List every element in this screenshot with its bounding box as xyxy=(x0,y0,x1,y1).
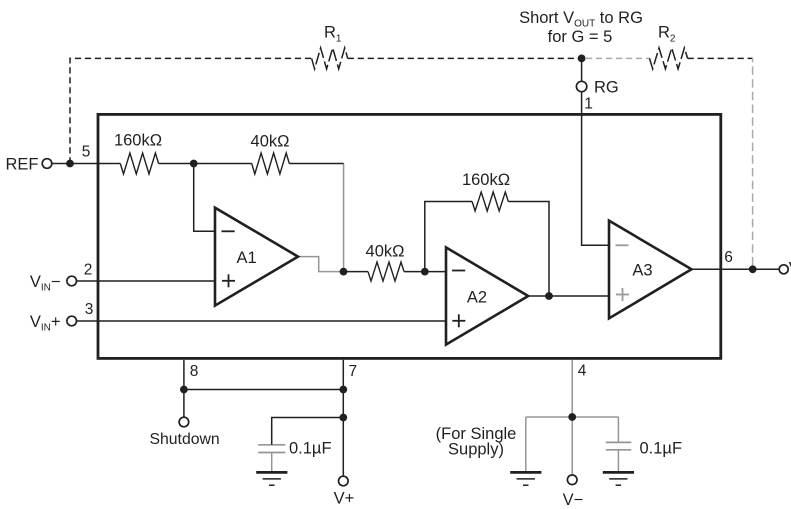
svg-text:REF: REF xyxy=(6,156,39,174)
svg-text:A1: A1 xyxy=(237,249,257,267)
svg-text:VIN+: VIN+ xyxy=(30,313,61,334)
svg-text:0.1µF: 0.1µF xyxy=(289,440,332,458)
svg-text:3: 3 xyxy=(85,301,94,318)
svg-text:V+: V+ xyxy=(334,490,355,508)
svg-text:5: 5 xyxy=(82,144,91,161)
svg-text:Short VOUT to RG: Short VOUT to RG xyxy=(519,9,643,30)
svg-text:A3: A3 xyxy=(632,261,652,279)
svg-text:160kΩ: 160kΩ xyxy=(114,131,162,149)
svg-text:8: 8 xyxy=(190,363,199,380)
svg-text:Supply): Supply) xyxy=(448,441,504,459)
svg-text:40kΩ: 40kΩ xyxy=(366,243,405,261)
svg-text:7: 7 xyxy=(348,363,357,380)
svg-text:V−: V− xyxy=(563,491,584,509)
svg-text:160kΩ: 160kΩ xyxy=(462,171,510,189)
svg-text:4: 4 xyxy=(578,363,587,380)
svg-text:VIN−: VIN− xyxy=(30,273,61,294)
svg-text:for G = 5: for G = 5 xyxy=(548,28,613,46)
svg-text:A2: A2 xyxy=(467,289,487,307)
svg-text:1: 1 xyxy=(584,95,593,112)
svg-text:2: 2 xyxy=(84,262,93,279)
svg-text:R1: R1 xyxy=(324,24,342,45)
svg-text:6: 6 xyxy=(724,249,733,266)
svg-text:RG: RG xyxy=(594,78,619,96)
svg-text:0.1µF: 0.1µF xyxy=(640,440,683,458)
svg-text:R2: R2 xyxy=(658,24,676,45)
svg-text:Shutdown: Shutdown xyxy=(149,431,219,448)
svg-text:40kΩ: 40kΩ xyxy=(251,133,290,151)
